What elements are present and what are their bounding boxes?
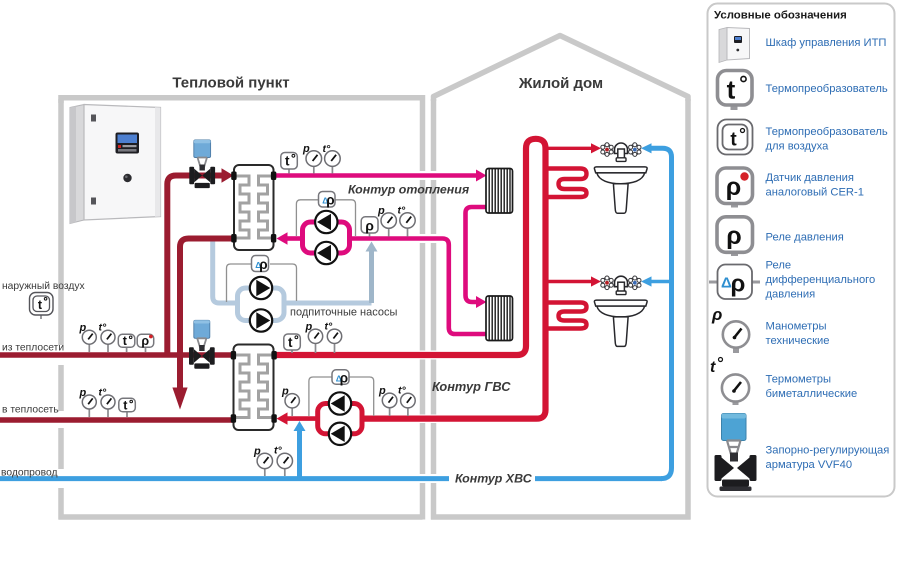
- gauge из теплосети (temperature): [99, 322, 116, 353]
- house wall right: [685, 99, 691, 520]
- wall right seg3: [420, 243, 426, 351]
- svg-text:подпиточные насосы: подпиточные насосы: [290, 307, 397, 319]
- gauge on heating supply (pressure): [302, 143, 322, 174]
- U2 port top-left: [231, 351, 236, 360]
- svg-text:Контур ГВС: Контур ГВС: [432, 379, 511, 394]
- svg-text:арматура VVF40: арматура VVF40: [766, 459, 853, 471]
- svg-text:технические: технические: [766, 335, 830, 347]
- legend cabinet icon: [719, 28, 750, 63]
- svg-text:ρ: ρ: [726, 222, 741, 250]
- dp sensing bracket (ГВС pumps): [309, 377, 332, 416]
- pipe: ГВС return pump loop (red): [318, 404, 362, 434]
- arrow hot into faucet 1: [591, 143, 601, 153]
- svg-text:t°: t°: [99, 322, 107, 334]
- heat exchanger U2 right coil: [259, 355, 273, 418]
- svg-text:p: p: [378, 385, 386, 397]
- arrow up into ГВС return: [294, 421, 306, 431]
- faucet 2 hot handle: [601, 276, 613, 290]
- dp relay box (heating pumps): [319, 192, 336, 208]
- wall left upper: [58, 99, 64, 345]
- faucet 2 cold handle: [629, 276, 641, 290]
- makeup (подпиточные) inlet pipe: [213, 241, 238, 303]
- wall top: [61, 98, 423, 103]
- pipe: heating return into exchanger (pink): [287, 236, 303, 241]
- gauge on водопровод (pressure): [253, 446, 272, 477]
- svg-text:t: t: [288, 335, 293, 350]
- house wall left seg6: [431, 483, 437, 520]
- building: Жилой дом outline: [431, 36, 691, 520]
- svg-text:t°: t°: [323, 143, 331, 155]
- pipe: heating return pump loop (pink): [303, 222, 350, 253]
- gauge on ГВС supply (pressure): [305, 321, 323, 353]
- wall right seg4: [420, 360, 426, 415]
- pipe: в теплосеть (dark red return main): [0, 417, 234, 423]
- dp sensing bracket (heating pumps): [296, 200, 318, 236]
- sink 1 bowl: [597, 173, 645, 184]
- outdoor air t-sensor (double box): [30, 293, 54, 320]
- pipe: heating supply (pink) to radiators: [274, 173, 477, 178]
- gauge on heating return (temperature): [398, 205, 416, 237]
- svg-text:ρ: ρ: [731, 271, 746, 298]
- dp relay box (makeup pumps): [252, 256, 269, 272]
- t-sensor box on ГВС supply: [284, 334, 301, 353]
- svg-text:ρ: ρ: [259, 257, 267, 272]
- U2 port bottom-left: [231, 414, 236, 423]
- makeup pump loop: [238, 288, 285, 321]
- arrow down into return main: [172, 388, 187, 410]
- svg-text:Тепловой пункт: Тепловой пункт: [172, 75, 289, 92]
- gauge on heating return (pressure): [377, 205, 396, 237]
- legend manometer icon: [711, 305, 749, 353]
- pipe: из теплосети (dark red supply main): [0, 352, 234, 358]
- svg-text:в теплосеть: в теплосеть: [2, 405, 59, 416]
- towel rail serpentine floor 2: [546, 303, 587, 329]
- U1 port bottom-right: [271, 234, 276, 243]
- house wall left seg5: [431, 423, 437, 474]
- svg-text:p: p: [79, 387, 87, 399]
- makeup pump P3: [250, 277, 272, 299]
- pipe: ХВС riser (blue): [651, 148, 672, 478]
- U1 port top-right: [271, 172, 276, 181]
- cabinet knob: [123, 174, 131, 182]
- U2 port top-right: [271, 351, 276, 360]
- svg-text:Реле давления: Реле давления: [766, 232, 844, 244]
- legend pressure sensor CER-1 icon: [717, 168, 753, 208]
- radiator 1: [486, 169, 513, 214]
- roof: [434, 36, 689, 102]
- pipe: ГВС supply riser (red): [274, 139, 546, 419]
- svg-text:Датчик давления: Датчик давления: [766, 172, 854, 184]
- pipe: водопровод / ХВС (blue): [0, 476, 449, 481]
- pipe: heating return downcomer: [180, 239, 234, 392]
- radiator 2: [486, 296, 513, 341]
- V1 body: [189, 167, 194, 184]
- svg-text:Запорно-регулирующая: Запорно-регулирующая: [766, 445, 890, 457]
- heat exchanger U2 left coil: [235, 355, 249, 418]
- cabinet hinge bottom: [91, 198, 96, 205]
- building: Тепловой пункт outline: [59, 95, 423, 520]
- svg-text:биметаллические: биметаллические: [766, 388, 858, 400]
- cabinet hinge top: [91, 115, 96, 122]
- gauge on ГВС return near exchanger (pressure): [281, 386, 299, 417]
- U2 port bottom-right: [271, 414, 276, 423]
- svg-text:Жилой дом: Жилой дом: [518, 75, 603, 92]
- svg-text:Контур отопления: Контур отопления: [348, 183, 470, 197]
- arrow into radiator 1: [476, 170, 487, 182]
- V1 actuator: [194, 140, 211, 158]
- V2 actuator: [194, 320, 210, 338]
- cabinet display: [116, 133, 140, 154]
- svg-text:аналоговый CER-1: аналоговый CER-1: [766, 187, 864, 199]
- towel rail serpentine floor 1: [546, 169, 587, 198]
- pipe: ХВС feed to ГВС return (blue): [297, 431, 302, 479]
- gauge в теплосеть (temperature): [99, 387, 116, 418]
- heat exchanger U1 right coil: [259, 176, 273, 238]
- V2 body: [189, 347, 194, 364]
- heating pump P2: [315, 242, 337, 264]
- gauge on ГВС supply (temperature): [325, 321, 342, 354]
- makeup outlet pipe: [284, 301, 372, 306]
- wall right seg5: [420, 423, 426, 474]
- sink 1 rim: [594, 167, 647, 173]
- svg-text:Термопреобразователь: Термопреобразователь: [766, 126, 888, 138]
- house wall left seg2: [431, 180, 437, 234]
- wall right seg2: [420, 180, 426, 234]
- svg-text:t°: t°: [274, 445, 282, 457]
- dp relay box (ГВС pumps): [332, 370, 349, 386]
- svg-text:из теплосети: из теплосети: [2, 343, 64, 354]
- pipe: radiator1 to radiator2 (pink): [466, 207, 487, 302]
- wall left seg4: [58, 488, 64, 520]
- gauge on ГВС return right (pressure): [378, 385, 397, 416]
- svg-text:p: p: [79, 322, 87, 334]
- valve V1 (heating): [189, 140, 215, 188]
- sink 2 pedestal: [613, 317, 628, 347]
- ГВС pump P5: [329, 392, 351, 414]
- faucet 1 hot handle: [601, 143, 613, 157]
- gauge on водопровод (temperature): [274, 445, 292, 477]
- V1 stem linkage: [198, 158, 208, 169]
- svg-text:наружный воздух: наружный воздух: [2, 281, 85, 292]
- V2 stem linkage: [197, 338, 206, 348]
- svg-text:p: p: [377, 205, 385, 217]
- sink 2 with faucet: [594, 276, 647, 346]
- svg-text:ρ: ρ: [340, 370, 348, 385]
- svg-text:ρ: ρ: [365, 217, 374, 233]
- arrow into exchanger 1 right port: [277, 232, 288, 244]
- svg-text:t: t: [710, 359, 716, 376]
- heat exchanger U1 left coil: [236, 176, 250, 238]
- house wall left seg4: [431, 360, 437, 415]
- legend valve VVF40 icon: [715, 414, 757, 492]
- sink 1 with faucet: [594, 143, 647, 213]
- svg-text:p: p: [281, 386, 289, 398]
- t-sensor box on heating supply: [281, 153, 298, 174]
- arrow cold into faucet 2: [641, 276, 652, 286]
- arrow into exchanger 2 right port: [277, 412, 288, 424]
- svg-text:ρ: ρ: [326, 193, 334, 208]
- svg-text:Шкаф управления ИТП: Шкаф управления ИТП: [766, 37, 887, 49]
- svg-text:Манометры: Манометры: [766, 321, 827, 333]
- sink 2 rim: [594, 300, 647, 306]
- sink 1 pedestal: [613, 184, 628, 214]
- svg-text:p: p: [253, 446, 261, 458]
- wall left seg2: [58, 365, 64, 411]
- dp sensing bracket (makeup pumps): [227, 264, 252, 302]
- svg-text:Контур ХВС: Контур ХВС: [455, 472, 533, 486]
- legend thermometer icon: [710, 358, 749, 406]
- svg-text:t: t: [285, 154, 290, 169]
- arrow hot into faucet 2: [591, 276, 601, 286]
- faucet 1 cold handle: [629, 143, 641, 157]
- heating pump P1: [315, 211, 337, 233]
- legend pressure relay icon: [717, 217, 753, 256]
- gauge из теплосети (pressure): [79, 322, 97, 352]
- svg-text:ρ: ρ: [141, 334, 149, 348]
- svg-text:Условные обозначения: Условные обозначения: [714, 10, 847, 22]
- svg-text:p: p: [305, 321, 313, 333]
- cabinet left side: [70, 105, 84, 224]
- wall bottom: [59, 514, 423, 520]
- svg-text:Реле: Реле: [766, 260, 792, 272]
- legend t-sensor icon: [718, 71, 753, 111]
- legend dp relay icon: [709, 265, 760, 300]
- svg-text:t°: t°: [398, 205, 406, 217]
- gauge в теплосеть (pressure): [79, 387, 97, 417]
- gauge on ГВС return right (temperature): [398, 385, 415, 417]
- t-sensor box из теплосети: [118, 334, 135, 352]
- pipe: heating return from radiator 2 (pink): [350, 239, 487, 335]
- branch to faucet 2 (hot): [546, 280, 593, 283]
- svg-text:давления: давления: [766, 289, 816, 301]
- house bottom: [431, 514, 691, 520]
- heat exchanger U2 body: [234, 345, 274, 431]
- branch cold to faucet 2: [651, 280, 672, 283]
- svg-text:t°: t°: [325, 321, 333, 333]
- svg-text:дифференциального: дифференциального: [766, 274, 876, 286]
- sink 2 bowl: [597, 306, 645, 317]
- pressure relay box on heating return: [361, 217, 378, 237]
- svg-text:водопровод: водопровод: [1, 468, 57, 479]
- faucet 2 body: [615, 276, 628, 287]
- house wall left seg1: [431, 99, 437, 171]
- legend air t-sensor icon (double box): [718, 120, 753, 155]
- svg-text:t: t: [727, 75, 736, 105]
- wall right seg6: [420, 483, 426, 520]
- gauge on heating supply (temperature): [323, 143, 341, 174]
- U1 port bottom-left: [231, 234, 236, 243]
- makeup pump P4: [250, 309, 272, 331]
- control cabinet: [70, 105, 161, 224]
- pipe: supply riser to heat exchanger 1: [167, 176, 221, 356]
- svg-text:Термопреобразователь: Термопреобразователь: [766, 83, 888, 95]
- svg-text:t°: t°: [398, 385, 406, 397]
- makeup feed arrow into heating return: [369, 251, 374, 304]
- svg-text:Термометры: Термометры: [766, 374, 832, 386]
- U1 port top-left: [231, 172, 236, 181]
- heat exchanger U1 body: [234, 165, 274, 250]
- svg-text:t°: t°: [99, 387, 107, 399]
- ГВС pump P6: [329, 423, 351, 445]
- valve V2 (ГВС): [189, 320, 215, 369]
- house wall left seg3: [431, 243, 437, 351]
- arrow cold into faucet 1: [641, 143, 652, 153]
- svg-text:ρ: ρ: [726, 173, 741, 201]
- arrow into radiator 2: [476, 296, 487, 308]
- wall right seg1: [420, 95, 426, 171]
- arrow into heat exchanger 1: [222, 168, 234, 182]
- legend box: [708, 4, 895, 497]
- svg-text:t: t: [730, 130, 737, 151]
- wall left seg3: [58, 428, 64, 469]
- faucet 1 body: [615, 143, 628, 154]
- svg-text:ρ: ρ: [711, 305, 722, 324]
- t-sensor box в теплосеть: [119, 398, 136, 417]
- svg-text:p: p: [302, 143, 310, 155]
- pressure sensor CER-1 box из теплосети: [137, 334, 154, 352]
- cabinet front: [84, 105, 161, 221]
- svg-text:для воздуха: для воздуха: [766, 141, 830, 153]
- pipe: ГВС return into exchanger 2 (red): [287, 416, 318, 421]
- branch to faucet 1 (hot): [546, 147, 593, 150]
